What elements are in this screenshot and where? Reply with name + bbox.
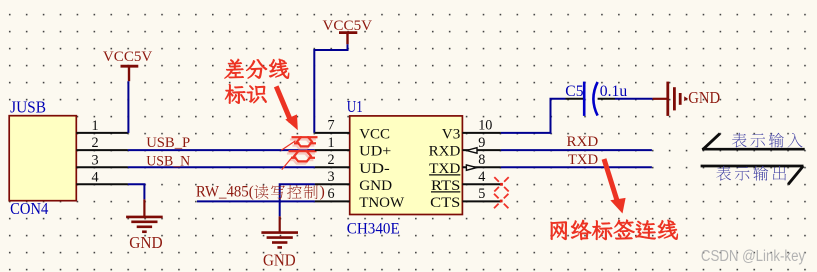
svg-text:8: 8 bbox=[478, 152, 485, 168]
svg-text:1: 1 bbox=[327, 135, 334, 151]
C5 value 0.1u bbox=[600, 83, 628, 100]
annotation arrow (net label) bbox=[604, 159, 626, 214]
connector pin 4 bbox=[76, 169, 128, 185]
svg-text:RW_485(: RW_485( bbox=[196, 183, 254, 200]
svg-text:GND: GND bbox=[129, 233, 163, 252]
no-ERC marker pin 5 bbox=[494, 194, 508, 208]
legend text 'means output' bbox=[716, 166, 786, 181]
wire RXD bbox=[501, 149, 652, 151]
svg-text:JUSB: JUSB bbox=[10, 98, 46, 117]
U1 right pin 4 (RTS) bbox=[431, 169, 501, 194]
U1 left pin 1 (UD+) bbox=[315, 135, 391, 160]
annotation text 'differential pair mark' bbox=[224, 59, 289, 104]
connector J-USB CON4 body bbox=[9, 116, 76, 201]
IC U1 body bbox=[350, 116, 463, 215]
differential pair directive (USB_P) bbox=[281, 137, 317, 150]
U1 left pin 6 (TNOW) bbox=[315, 186, 405, 211]
svg-text:6: 6 bbox=[327, 186, 334, 202]
svg-text:RXD: RXD bbox=[429, 143, 461, 160]
wire USB_N bbox=[128, 166, 315, 168]
wire pin10 to C5 bbox=[501, 99, 566, 133]
svg-text:V3: V3 bbox=[442, 125, 461, 142]
net label TXD bbox=[568, 151, 598, 168]
svg-text:5: 5 bbox=[478, 186, 485, 202]
svg-text:CTS: CTS bbox=[430, 194, 460, 211]
svg-text:USB_N: USB_N bbox=[146, 153, 190, 169]
C5 designator bbox=[565, 83, 583, 100]
svg-text:2: 2 bbox=[91, 135, 98, 151]
wire VCC5V to pin7 bbox=[314, 44, 347, 133]
svg-text:CON4: CON4 bbox=[10, 199, 49, 218]
svg-text:4: 4 bbox=[91, 169, 98, 185]
svg-text:2: 2 bbox=[327, 152, 334, 168]
svg-text:U1: U1 bbox=[347, 97, 363, 116]
U1 right pin 10 (V3) bbox=[442, 118, 501, 143]
differential pair directive (USB_N) bbox=[282, 151, 317, 169]
svg-text:1: 1 bbox=[91, 118, 98, 134]
svg-text:GND: GND bbox=[359, 177, 392, 194]
annotation arrow (diff mark) bbox=[276, 86, 298, 130]
ground GND (C5, sideways) bbox=[653, 82, 721, 116]
svg-text:TXD: TXD bbox=[568, 151, 598, 168]
net label RW_485(read-write control) bbox=[196, 183, 325, 200]
wire pin3 to GND bbox=[280, 184, 315, 216]
IC designator U1 bbox=[347, 97, 363, 116]
svg-text:GND: GND bbox=[688, 88, 720, 107]
svg-text:CH340E: CH340E bbox=[347, 219, 400, 237]
ground GND (U1) bbox=[261, 216, 298, 269]
svg-text:3: 3 bbox=[327, 169, 334, 185]
wire pin4 to GND bbox=[128, 184, 144, 199]
U1 left pin 2 (UD-) bbox=[315, 152, 390, 177]
legend text 'means input' bbox=[732, 133, 803, 148]
svg-text:UD-: UD- bbox=[359, 160, 390, 177]
net label USB_P bbox=[146, 135, 190, 151]
svg-text:): ) bbox=[320, 183, 325, 200]
svg-text:TNOW: TNOW bbox=[359, 194, 405, 211]
svg-text:9: 9 bbox=[478, 135, 485, 151]
pin 9 input arrow bbox=[466, 148, 477, 154]
wire C5 to GND bbox=[615, 98, 653, 100]
annotation text 'net label connection' bbox=[551, 220, 678, 240]
legend input line bbox=[702, 134, 805, 150]
net label USB_N bbox=[146, 153, 190, 169]
svg-text:10: 10 bbox=[478, 118, 492, 134]
svg-text:CSDN @Link-key: CSDN @Link-key bbox=[701, 248, 805, 265]
svg-text:4: 4 bbox=[478, 169, 485, 185]
svg-text:7: 7 bbox=[327, 118, 334, 134]
connector pin 1 bbox=[76, 118, 128, 134]
svg-text:VCC5V: VCC5V bbox=[103, 49, 153, 65]
no-ERC marker pin 4 bbox=[494, 177, 508, 191]
pin 8 output arrow bbox=[466, 165, 476, 170]
wire USB_P bbox=[128, 149, 315, 151]
wire TXD bbox=[501, 166, 652, 168]
svg-text:3: 3 bbox=[91, 152, 98, 168]
connector pin 2 bbox=[76, 135, 128, 151]
connector value CON4 bbox=[10, 199, 49, 218]
svg-text:USB_P: USB_P bbox=[146, 135, 190, 151]
svg-text:GND: GND bbox=[263, 251, 296, 270]
watermark CSDN bbox=[701, 248, 805, 265]
svg-text:VCC: VCC bbox=[359, 125, 390, 142]
capacitor C5 bbox=[566, 82, 616, 116]
svg-text:0.1u: 0.1u bbox=[600, 83, 628, 100]
U1 left pin 3 (GND) bbox=[315, 169, 392, 194]
U1 right pin 5 (CTS) bbox=[430, 186, 501, 211]
wire RW_485 bbox=[197, 200, 315, 202]
U1 right pin 8 (TXD) bbox=[429, 152, 501, 177]
power port VCC5V (U1) bbox=[323, 18, 373, 44]
legend output line bbox=[701, 166, 804, 184]
U1 right pin 9 (RXD) bbox=[429, 135, 501, 160]
IC value CH340E bbox=[347, 219, 400, 237]
svg-text:UD+: UD+ bbox=[359, 143, 391, 160]
U1 left pin 7 (VCC) bbox=[315, 118, 390, 143]
net label RXD bbox=[567, 133, 599, 150]
connector pin 3 bbox=[76, 152, 128, 168]
ground GND (connector) bbox=[126, 199, 163, 252]
svg-text:RXD: RXD bbox=[567, 133, 599, 150]
wire pin1 to VCC5V bbox=[127, 81, 129, 133]
power port VCC5V (left) bbox=[103, 49, 153, 81]
svg-text:C5: C5 bbox=[565, 83, 583, 100]
connector designator JUSB bbox=[10, 98, 46, 117]
